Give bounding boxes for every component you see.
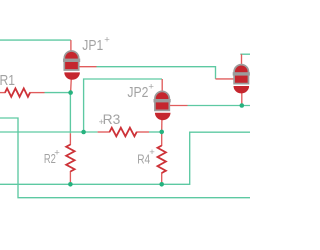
svg-text:R1: R1 [0, 72, 15, 89]
wire JP2 right pin through node D to right edge [188, 105, 251, 107]
wire net y=132 left bus segment [0, 131, 98, 133]
node C junction dot JP2/R3/R4 [159, 130, 164, 135]
wire JP2 top net from corner down to node B [84, 79, 162, 132]
wire JP1 right pin net to corner above JP3 [97, 67, 216, 79]
wire JP3 top stub to right edge [240, 53, 250, 55]
wire node A down to R2 [69, 93, 71, 134]
wire net VCC top-left horizontal [0, 39, 71, 41]
resistor R4 [158, 132, 166, 184]
node D junction dot JP3 bottom [240, 103, 245, 108]
svg-text:JP2: JP2 [127, 85, 148, 101]
svg-text:R4: R4 [137, 151, 150, 166]
svg-text:+: + [54, 147, 60, 158]
resistor R2 [66, 133, 74, 184]
svg-text:+: + [148, 81, 154, 92]
svg-text:+: + [149, 147, 155, 158]
svg-text:+: + [99, 117, 104, 127]
jumper JP1 [63, 40, 97, 93]
wire bottom bus y=184 with riser to right edge [0, 132, 250, 184]
wire R3 to node C [149, 131, 162, 133]
node F junction dot R4 bottom [159, 182, 164, 187]
wire left bus x=18 down to bottom rail y=197.7 [0, 118, 250, 198]
node A junction dot R1/JP1/R2 [68, 90, 73, 95]
node E junction dot R2 bottom [68, 182, 73, 187]
svg-text:+: + [104, 34, 110, 45]
resistor R3 [98, 128, 149, 137]
jumper JP3 (cropped at right edge) [216, 54, 250, 105]
svg-text:JP1: JP1 [82, 38, 103, 54]
jumper JP2 [154, 79, 188, 132]
resistor R1 [0, 88, 45, 96]
wire R1 to node A [45, 92, 71, 94]
svg-text:R3: R3 [103, 112, 121, 127]
node B junction dot at x=83.3 on y=132 bus [81, 130, 86, 135]
